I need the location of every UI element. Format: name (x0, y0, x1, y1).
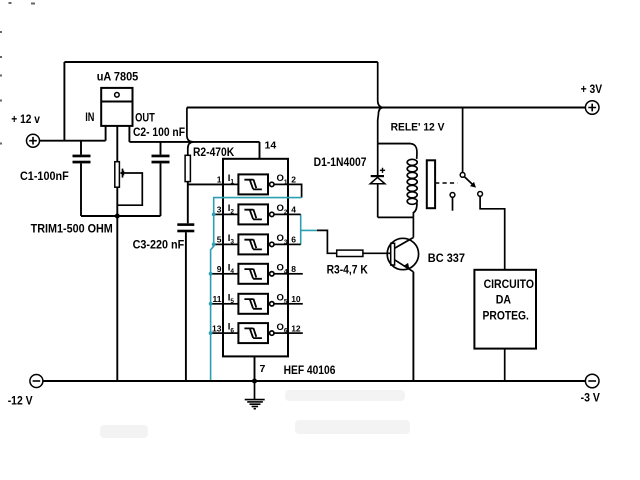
svg-text:BC 337: BC 337 (428, 251, 465, 265)
svg-text:IN: IN (85, 110, 94, 124)
svg-text:9: 9 (217, 264, 222, 274)
wire output branch (teal) (301, 229, 317, 231)
wire pin 9 stub (211, 273, 223, 275)
wire O1 loop right side (288, 184, 302, 197)
faint background smudges (100, 390, 410, 438)
wire switch riser from +3V rail (462, 108, 464, 173)
wire diode/coil bottom to collector (378, 216, 414, 218)
inverter U2a row 1 (223, 174, 288, 194)
junction dot pin5 (212, 243, 216, 247)
wire O2-O3 tie (teal) (300, 214, 302, 244)
wire IC pin 7 (254, 356, 256, 381)
dashed actuator link (435, 182, 457, 184)
wire diode branch down (377, 144, 379, 176)
protection circuit box (474, 270, 536, 349)
resistor R3 body (337, 250, 363, 256)
svg-text:PROTEG.: PROTEG. (483, 308, 529, 322)
svg-text:C3-220 nF: C3-220 nF (133, 238, 185, 252)
wire left riser from +12v line to top rail (63, 62, 65, 141)
wire pin 11 stub (211, 303, 223, 305)
IC U2 HEF40106 box (223, 159, 288, 357)
wire IN pin (105, 126, 107, 141)
wire curved drop from rail to R2 (188, 142, 194, 155)
wire regulator GND pin (116, 126, 118, 162)
inverter U2e row 5 (223, 294, 288, 314)
switch NO contact (478, 192, 483, 197)
svg-text:2: 2 (291, 175, 296, 185)
wire middle junction rail (81, 215, 161, 217)
svg-text:D1-1N4007: D1-1N4007 (314, 155, 367, 169)
relay armature (427, 160, 435, 208)
svg-text:-3 V: -3 V (581, 391, 600, 405)
svg-text:3: 3 (217, 205, 222, 215)
wire pin4 stub (288, 213, 301, 215)
wire collector (412, 217, 414, 237)
svg-text:12: 12 (291, 323, 301, 333)
relay coil K1 (407, 144, 417, 218)
switch common contact (460, 173, 465, 178)
wire pin 10 stub (288, 303, 303, 305)
terminal -12V (30, 375, 43, 388)
wire regulator OUT pin (128, 126, 130, 142)
svg-text:DA: DA (496, 293, 512, 307)
wire +12v to regulator IN (40, 140, 106, 142)
svg-text:11: 11 (213, 294, 222, 304)
wire pin 3 stub (214, 213, 223, 215)
wire branch to R3 (317, 230, 337, 253)
wire emitter to -12V rail (412, 272, 414, 381)
resistor R2 body (185, 155, 190, 181)
wire R2 bottom lead (187, 182, 189, 224)
wire OUT rail to IC pin14 corner (129, 141, 259, 143)
trimmer TRIM1 body (115, 162, 120, 188)
junction dot pin3 (212, 213, 216, 217)
svg-text:uA 7805: uA 7805 (97, 69, 139, 83)
wire box to -12V rail (504, 349, 506, 381)
wire pin 13 stub (211, 332, 223, 334)
wire NO contact to protection box (480, 196, 505, 269)
switch arm with arrow (464, 177, 476, 188)
scan artifacts left edge (0, 2, 35, 145)
terminal -3V (585, 374, 599, 388)
transistor Q1 BC337 (387, 238, 418, 272)
wire top +12V rail (64, 61, 377, 63)
svg-text:C2- 100 nF: C2- 100 nF (133, 125, 185, 139)
inverter U2f row 6 (223, 323, 288, 343)
switch NC contact (450, 193, 455, 211)
svg-text:R2-470K: R2-470K (193, 145, 234, 159)
wire O1 to inputs (teal) (211, 198, 302, 381)
wire IC pin 14 (259, 142, 261, 159)
svg-text:5: 5 (217, 235, 222, 245)
wire R3 to base (363, 252, 391, 254)
inverter U2b row 2 (223, 204, 288, 224)
svg-text:6: 6 (291, 235, 296, 245)
ground symbol (245, 381, 265, 409)
terminal +12v (27, 134, 40, 147)
capacitor C2 (152, 142, 170, 216)
capacitor C3 (177, 223, 194, 381)
regulator U1 uA7805 (101, 88, 132, 126)
svg-text:1: 1 (217, 175, 222, 185)
junction dot pin11 (209, 302, 213, 306)
wire riser OUT rail to +3V rail (curved junction) (187, 108, 194, 142)
junction dot pin13 (209, 331, 213, 335)
wire bottom -12V rail (43, 380, 585, 382)
svg-text:RELE' 12 V: RELE' 12 V (391, 122, 446, 134)
svg-text:R3-4,7 K: R3-4,7 K (327, 262, 368, 276)
svg-text:CIRCUITO: CIRCUITO (484, 277, 534, 291)
junction dot pin7 / -12V rail (252, 379, 257, 384)
svg-text:C1-100nF: C1-100nF (20, 169, 69, 183)
inverter U2c row 3 (223, 234, 288, 254)
svg-text:7: 7 (260, 363, 266, 375)
wire pin6 stub (288, 243, 301, 245)
svg-text:HEF 40106: HEF 40106 (284, 363, 336, 377)
wire riser top rail to relay (crossover at +3V rail) (378, 62, 384, 144)
wire R2 to IC pin 1 (188, 183, 223, 185)
inverter U2d row 4 (223, 264, 288, 284)
svg-text:OUT: OUT (135, 111, 155, 125)
diode D1 1N4007 (370, 168, 385, 218)
svg-text:+ 12 v: + 12 v (11, 112, 40, 126)
wire pin 5 stub (214, 243, 223, 245)
wire relay top (378, 143, 411, 145)
svg-text:TRIM1-500 OHM: TRIM1-500 OHM (31, 222, 113, 236)
junction dot trimmer/mid-rail (115, 214, 120, 219)
svg-text:10: 10 (291, 294, 301, 304)
terminal +3V (585, 101, 599, 115)
wire pin 8 stub (288, 273, 303, 275)
svg-text:13: 13 (212, 323, 222, 333)
wire trimmer bottom (116, 187, 118, 216)
wire pin 12 stub (288, 332, 303, 334)
svg-text:8: 8 (291, 264, 296, 274)
svg-text:14: 14 (265, 140, 277, 152)
wire +3V rail (187, 107, 586, 109)
wire junction down to -12V rail (116, 216, 118, 381)
svg-text:+ 3V: + 3V (581, 82, 603, 96)
trimmer wiper arrow and feedback wire (118, 169, 143, 206)
svg-text:4: 4 (291, 205, 296, 215)
svg-text:-12 V: -12 V (8, 393, 33, 407)
capacitor C1 (73, 141, 91, 216)
junction dot pin9 (209, 272, 213, 276)
